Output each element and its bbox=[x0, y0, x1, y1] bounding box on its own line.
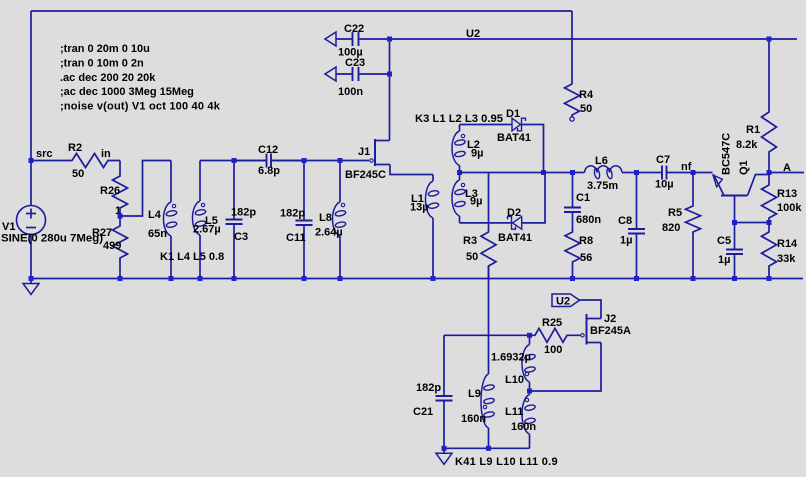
capacitor C3 bbox=[233, 161, 235, 220]
svg-text:R3: R3 bbox=[463, 235, 477, 247]
svg-text:in: in bbox=[101, 148, 111, 160]
svg-text:680n: 680n bbox=[576, 214, 601, 226]
svg-text:;ac dec 1000 3Meg 15Meg: ;ac dec 1000 3Meg 15Meg bbox=[60, 86, 194, 98]
svg-text:R2: R2 bbox=[68, 142, 82, 154]
junction tank top node bbox=[527, 333, 532, 338]
svg-text:.ac dec 200 20 20k: .ac dec 200 20 20k bbox=[60, 72, 156, 84]
svg-text:BAT41: BAT41 bbox=[497, 132, 531, 144]
wire detector row from centre tap to C1 bbox=[460, 172, 573, 174]
svg-text:R27: R27 bbox=[92, 227, 112, 239]
capacitor C1 bbox=[572, 173, 574, 208]
svg-text:C23: C23 bbox=[345, 57, 365, 69]
resistor R2 bbox=[31, 154, 120, 168]
svg-text:C3: C3 bbox=[234, 231, 248, 243]
svg-text:100k: 100k bbox=[777, 202, 802, 214]
wire left drop from top rail to node src bbox=[30, 11, 32, 161]
wire node nf to Q1 emitter bbox=[693, 172, 713, 174]
junction C23 right on J1 drain wire bbox=[387, 72, 392, 77]
wire J1 drain up to C23/C22 node bbox=[389, 39, 391, 141]
ground symbol at tank bbox=[436, 448, 452, 464]
wire filter row from C11 to L8 node bbox=[304, 160, 340, 162]
svg-text:U2: U2 bbox=[466, 28, 480, 40]
wire node A stub to right edge bbox=[769, 172, 804, 174]
junction C8 bottom on ground bus bbox=[634, 276, 639, 281]
junction C8 top on detector row bbox=[634, 170, 639, 175]
junction C5 bottom on ground bus bbox=[732, 276, 737, 281]
svg-text:R25: R25 bbox=[542, 317, 562, 329]
svg-text:3.75m: 3.75m bbox=[587, 180, 618, 192]
junction D1/D2 detector node bbox=[541, 170, 546, 175]
inductor L9 bbox=[481, 374, 495, 448]
svg-text:BC547C: BC547C bbox=[721, 133, 733, 175]
svg-text:D1: D1 bbox=[506, 108, 520, 120]
svg-text:U2: U2 bbox=[556, 296, 570, 308]
junction L8 bottom on ground bus bbox=[338, 276, 343, 281]
svg-text:Q1: Q1 bbox=[738, 160, 750, 175]
wire R3 bottom through bus crossing to L9 bbox=[488, 266, 490, 374]
junction C22 right / U2 rail start bbox=[387, 37, 392, 42]
inductor L10 bbox=[522, 335, 536, 391]
svg-text:182p: 182p bbox=[416, 382, 441, 394]
junction C3 top on filter row bbox=[232, 158, 237, 163]
junction Q1 base / C5 top bbox=[732, 220, 737, 225]
junction L4 bottom on ground bus bbox=[169, 276, 174, 281]
junction R13/R14 node bbox=[767, 220, 772, 225]
wire J2 source to L10/L11 tap bbox=[530, 343, 602, 392]
resistor R25 bbox=[530, 328, 581, 342]
svg-text:9µ: 9µ bbox=[471, 148, 483, 160]
wire tank bottom bus bbox=[444, 447, 530, 449]
svg-text:L4: L4 bbox=[148, 209, 162, 221]
junction V1 minus / ground bus bbox=[29, 276, 34, 281]
svg-text:L10: L10 bbox=[505, 374, 524, 386]
inductor L5 bbox=[193, 161, 207, 279]
svg-text:K1 L4 L5 0.8: K1 L4 L5 0.8 bbox=[160, 251, 224, 263]
svg-text:R13: R13 bbox=[777, 188, 797, 200]
svg-text:V1: V1 bbox=[2, 221, 15, 233]
resistor R1 bbox=[762, 39, 777, 173]
capacitor C7 bbox=[637, 172, 663, 174]
svg-text:L8: L8 bbox=[319, 212, 332, 224]
svg-text:499: 499 bbox=[103, 240, 121, 252]
svg-text:D2: D2 bbox=[507, 207, 521, 219]
junction L1 bottom on ground bus bbox=[431, 276, 436, 281]
svg-text:L11: L11 bbox=[505, 406, 523, 418]
svg-text:182p: 182p bbox=[280, 208, 305, 220]
svg-text:K41 L9 L10 L11 0.9: K41 L9 L10 L11 0.9 bbox=[455, 456, 558, 468]
svg-text:182p: 182p bbox=[231, 207, 256, 219]
svg-text:SINE(0 280u 7Meg): SINE(0 280u 7Meg) bbox=[1, 233, 103, 245]
junction C1 top on detector row bbox=[570, 170, 575, 175]
capacitor C22 bbox=[336, 38, 353, 40]
voltage source V1 bbox=[17, 161, 46, 279]
svg-text:160n: 160n bbox=[511, 421, 536, 433]
svg-text:65n: 65n bbox=[148, 228, 167, 240]
resistor R26 bbox=[113, 161, 128, 217]
svg-text:56: 56 bbox=[580, 252, 592, 264]
svg-text:C5: C5 bbox=[717, 235, 731, 247]
svg-text:;noise v(out) V1 oct 100 40 4k: ;noise v(out) V1 oct 100 40 4k bbox=[60, 101, 221, 113]
wire U2 rail bbox=[390, 38, 798, 40]
svg-text:BF245A: BF245A bbox=[590, 325, 631, 337]
svg-text:C11: C11 bbox=[286, 232, 306, 244]
resistor R8 bbox=[565, 212, 580, 279]
junction C11 top on filter row bbox=[302, 158, 307, 163]
wire U2 tag to J2 drain bbox=[579, 300, 601, 319]
junction R1 top on U2 rail bbox=[767, 37, 772, 42]
svg-text:R8: R8 bbox=[579, 235, 593, 247]
inductor L3 bbox=[452, 173, 466, 223]
junction L10/L11 tap / J2 source node bbox=[527, 389, 532, 394]
wire D1 cathode to detector node bbox=[522, 125, 544, 173]
resistor R3 bbox=[481, 173, 496, 279]
inductor L1 bbox=[426, 175, 440, 279]
junction node A bbox=[767, 170, 772, 175]
resistor R5 bbox=[686, 173, 701, 279]
wire filter row from L5 to C3 bbox=[200, 160, 234, 162]
junction R5 bottom on ground bus bbox=[691, 276, 696, 281]
svg-text:9µ: 9µ bbox=[470, 196, 482, 208]
svg-text:8.2k: 8.2k bbox=[736, 139, 758, 151]
wire Q1 base row to R13/R14 node bbox=[735, 222, 770, 224]
svg-text:BAT41: BAT41 bbox=[498, 232, 532, 244]
svg-text:BF245C: BF245C bbox=[345, 169, 386, 181]
svg-text:13µ: 13µ bbox=[410, 202, 429, 214]
svg-text:50: 50 bbox=[466, 251, 478, 263]
svg-text:R4: R4 bbox=[579, 89, 594, 101]
svg-text:1µ: 1µ bbox=[718, 254, 730, 266]
junction node src bbox=[29, 158, 34, 163]
svg-text:160n: 160n bbox=[461, 413, 486, 425]
inductor L4 bbox=[164, 161, 178, 279]
junction C3 bottom on ground bus bbox=[232, 276, 237, 281]
net port tag U2 at J2 drain bbox=[552, 294, 580, 308]
capacitor C23 bbox=[336, 73, 353, 75]
inductor L8 bbox=[333, 161, 347, 279]
diode D1 BAT41 bbox=[512, 118, 526, 131]
inductor L2 bbox=[452, 125, 466, 173]
svg-text:C1: C1 bbox=[576, 192, 590, 204]
ground flag at C22 bbox=[325, 32, 336, 46]
ground flag at C23 bbox=[325, 67, 336, 81]
capacitor C5 bbox=[734, 223, 736, 250]
wire J1 gate from L8 node bbox=[340, 160, 369, 162]
svg-text:L9: L9 bbox=[468, 388, 481, 400]
inductor L11 bbox=[522, 391, 536, 448]
junction L5 bottom on ground bus bbox=[198, 276, 203, 281]
capacitor C11 bbox=[303, 161, 305, 221]
svg-text:R26: R26 bbox=[100, 185, 120, 197]
wire tank top from C21 to L10/R25 node bbox=[444, 334, 530, 336]
wire D2 anode up to detector node bbox=[522, 173, 545, 223]
resistor R14 bbox=[762, 223, 777, 279]
diode D2 BAT41 bbox=[508, 217, 522, 230]
junction C11 bottom on ground bus bbox=[302, 276, 307, 281]
junction R5 top / node nf bbox=[691, 170, 696, 175]
svg-text:src: src bbox=[36, 148, 53, 160]
capacitor C8 bbox=[636, 173, 638, 230]
svg-text:J2: J2 bbox=[604, 313, 616, 325]
wire detector row from C1 to L6 bbox=[573, 172, 585, 174]
wire bottom ground bus bbox=[31, 278, 803, 280]
svg-text:50: 50 bbox=[580, 103, 592, 115]
spice directive .tran/.ac/.noise text block bbox=[60, 43, 221, 113]
transistor J2 JFET BF245A bbox=[581, 314, 601, 345]
wire L3 bottom to D2 cathode bbox=[460, 222, 512, 224]
svg-text:50: 50 bbox=[72, 168, 84, 180]
wire L6 to C8 node bbox=[622, 172, 637, 174]
svg-text:C12: C12 bbox=[258, 144, 278, 156]
wire filter row from C3 to C12 bbox=[234, 160, 267, 162]
svg-text:1µ: 1µ bbox=[620, 235, 632, 247]
wire top rail from V1 column to R4 column bbox=[31, 10, 572, 12]
junction R8 bottom on ground bus bbox=[570, 276, 575, 281]
svg-text:L6: L6 bbox=[595, 155, 608, 167]
svg-text:C21: C21 bbox=[413, 406, 433, 418]
junction C21 bottom / tank ground bbox=[442, 446, 447, 451]
wire filter row from C12 to C11 bbox=[272, 160, 304, 162]
transistor Q1 BC547C bbox=[713, 175, 769, 223]
svg-text:;tran 0 10m 0 2n: ;tran 0 10m 0 2n bbox=[60, 57, 144, 69]
capacitor C21 bbox=[443, 335, 445, 396]
svg-text:10µ: 10µ bbox=[655, 179, 674, 191]
svg-text:C7: C7 bbox=[656, 154, 670, 166]
resistor R4 bbox=[565, 11, 580, 121]
svg-text:R1: R1 bbox=[746, 124, 760, 136]
svg-text:R14: R14 bbox=[777, 238, 798, 250]
wire from divider node up to L4 bbox=[120, 161, 171, 217]
junction R27 bottom on ground bus bbox=[118, 276, 123, 281]
svg-text:C8: C8 bbox=[618, 215, 632, 227]
capacitor C12 bbox=[234, 160, 267, 162]
ground symbol under V1 bbox=[23, 279, 39, 295]
resistor R13 bbox=[762, 173, 777, 223]
inductor L6 bbox=[585, 166, 623, 179]
svg-text:;tran 0 20m 0 10u: ;tran 0 20m 0 10u bbox=[60, 43, 150, 55]
svg-text:K3 L1 L2 L3 0.95: K3 L1 L2 L3 0.95 bbox=[415, 113, 503, 125]
svg-text:R5: R5 bbox=[668, 207, 682, 219]
wire L2 top to D1 anode bbox=[460, 124, 513, 126]
resistor R27 bbox=[113, 216, 128, 279]
svg-text:33k: 33k bbox=[777, 253, 796, 265]
junction L2/L3 centre tap bbox=[457, 170, 462, 175]
svg-text:2.67µ: 2.67µ bbox=[193, 224, 221, 236]
junction R26/R27 divider node bbox=[118, 214, 123, 219]
junction R14 bottom on ground bus bbox=[767, 276, 772, 281]
junction L8 top / J1 gate node bbox=[338, 158, 343, 163]
svg-text:100n: 100n bbox=[338, 86, 363, 98]
wire J1 source to L1 bbox=[390, 165, 433, 175]
transistor J1 JFET BF245C bbox=[370, 139, 390, 166]
svg-text:J1: J1 bbox=[358, 146, 370, 158]
svg-text:820: 820 bbox=[662, 222, 680, 234]
junction L9 bottom on tank ground bbox=[486, 446, 491, 451]
svg-text:nf: nf bbox=[681, 161, 692, 173]
svg-text:1.6932µ: 1.6932µ bbox=[491, 352, 531, 364]
svg-text:100: 100 bbox=[544, 344, 562, 356]
svg-text:2.64µ: 2.64µ bbox=[315, 227, 343, 239]
svg-text:C22: C22 bbox=[344, 23, 364, 35]
svg-text:6.8p: 6.8p bbox=[258, 165, 280, 177]
